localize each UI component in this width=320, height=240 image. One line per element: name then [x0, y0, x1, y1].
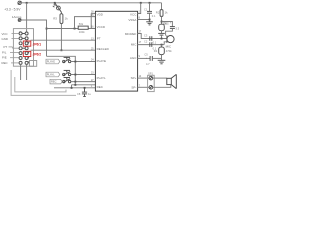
resistor R1 — [161, 45, 163, 47]
wire VCC stub up — [138, 3, 141, 14]
label PLAYE sw — [46, 59, 60, 64]
wire C1 drop — [149, 3, 151, 12]
microphone MIC — [167, 35, 174, 42]
switch SWc REC — [63, 78, 71, 83]
wire J1 drop A — [20, 64, 22, 80]
capacitor C1 — [147, 11, 152, 13]
svg-text:REC: REC — [51, 80, 57, 84]
wire SP+ — [138, 77, 150, 79]
capacitor C4 body — [159, 24, 165, 31]
svg-text:REC: REC — [97, 85, 104, 89]
wire +V drop to J1 — [26, 3, 28, 34]
node lower A — [74, 84, 76, 86]
svg-text:MIC: MIC — [131, 42, 137, 46]
svg-text:JP6/1: JP6/1 — [33, 42, 42, 46]
svg-text:PT: PT — [4, 45, 8, 49]
capacitor C6 — [150, 56, 152, 61]
wire +5 rail mid — [47, 28, 96, 30]
svg-text:VCC: VCC — [130, 12, 137, 16]
wire VSSA tie — [138, 19, 150, 21]
svg-text:C8: C8 — [77, 92, 81, 96]
node VSSA — [149, 19, 151, 21]
wire gnd to bias node — [161, 35, 163, 38]
wire SWc to IC — [71, 81, 96, 83]
svg-text:SP-: SP- — [131, 85, 136, 89]
red jumper box JP6/2 — [23, 51, 31, 56]
svg-text:4.7: 4.7 — [146, 62, 150, 66]
svg-text:SP+: SP+ — [131, 76, 137, 80]
svg-text:50k: 50k — [79, 22, 84, 26]
svg-text:C2: C2 — [144, 40, 148, 44]
node top rail LED tap — [54, 2, 56, 4]
node bias — [161, 21, 163, 23]
wire lower A to IC — [72, 84, 96, 86]
capacitor C5 — [170, 27, 175, 29]
LED D1 — [53, 3, 62, 12]
svg-text:VCC: VCC — [2, 32, 8, 36]
svg-text:PT: PT — [97, 37, 101, 41]
pin number ticks right — [139, 12, 142, 88]
svg-text:MICREF: MICREF — [125, 32, 137, 36]
wire R1 to gnd — [161, 55, 163, 61]
svg-text:VCCD: VCCD — [97, 25, 106, 29]
node C8 tap — [84, 87, 86, 89]
svg-text:VDD: VDD — [97, 12, 104, 16]
svg-text:1k: 1k — [65, 17, 69, 21]
wire P2 to +5 node — [21, 19, 27, 21]
svg-text:PLAYE: PLAYE — [97, 59, 106, 63]
svg-text:RECLED: RECLED — [97, 47, 110, 51]
resistor R6 — [78, 26, 88, 29]
svg-text:100k: 100k — [79, 30, 85, 34]
wire bias right branch — [162, 22, 173, 27]
node rail loop — [74, 28, 76, 30]
svg-text:R3: R3 — [53, 17, 57, 21]
jumper header SP — [148, 75, 155, 91]
node rail feed — [46, 28, 48, 30]
node RECLED junction — [61, 49, 63, 51]
wire label stubs J1 — [9, 34, 20, 63]
IC U1 box — [95, 11, 137, 91]
wire loop to XCLK — [75, 17, 96, 29]
wire MICREF — [138, 34, 167, 39]
svg-text:+3.3 - 5.9V: +3.3 - 5.9V — [4, 8, 21, 12]
svg-text:C3: C3 — [144, 34, 148, 38]
wire mic lower terminal — [164, 42, 166, 45]
svg-text:VSSA: VSSA — [128, 18, 136, 22]
red jumper box JP6/1 — [23, 41, 31, 46]
svg-text:0.1: 0.1 — [152, 14, 156, 18]
J1 pin rows — [19, 32, 29, 64]
resistor R2 — [160, 10, 163, 17]
ground C4 — [158, 33, 165, 35]
node R1 tap — [161, 44, 163, 46]
wire VDD stub — [91, 12, 95, 14]
svg-text:470k: 470k — [166, 49, 172, 53]
wire pad1 to speaker — [153, 77, 167, 79]
node top rail J1 drop — [26, 2, 28, 4]
wire R2 to node — [161, 16, 163, 24]
svg-text:PLAYL: PLAYL — [97, 76, 106, 80]
power port symbol P1 — [18, 1, 22, 4]
wire RECLED — [31, 49, 96, 51]
sheet border outer — [11, 70, 76, 95]
wire C1 to gnd — [149, 13, 151, 22]
node SWc — [74, 81, 76, 83]
switch SWb PLAYL — [63, 70, 71, 75]
svg-text:REC: REC — [2, 61, 8, 65]
ground AGC — [158, 60, 166, 64]
pad SP- — [149, 86, 153, 90]
svg-text:C1: C1 — [144, 8, 148, 12]
capacitor C8 — [82, 88, 87, 97]
svg-text:C5: C5 — [144, 52, 148, 56]
capacitor C3 — [150, 36, 152, 41]
node SWb — [74, 74, 76, 76]
wire R3 to RECLED — [60, 24, 62, 51]
wire rail to R2 — [161, 3, 163, 10]
label PLAYL sw — [46, 72, 60, 77]
power port symbol P2 — [18, 19, 21, 22]
svg-text:GND: GND — [2, 37, 8, 41]
wire C6 to gnd col — [152, 57, 161, 59]
svg-text:P/L: P/L — [2, 51, 7, 55]
node bias on mic wire — [161, 38, 163, 40]
svg-text:SP1: SP1 — [148, 72, 153, 76]
wire AGC — [138, 57, 151, 59]
svg-text:0.1: 0.1 — [153, 40, 157, 44]
wire switch feed — [47, 56, 76, 85]
svg-text:P/E: P/E — [2, 56, 7, 60]
wire PT — [31, 39, 96, 41]
wire pad2 to speaker — [153, 85, 171, 88]
wire C4 to gnd — [161, 31, 163, 34]
svg-text:PLAYL: PLAYL — [47, 73, 55, 77]
wire lower B long — [54, 87, 95, 89]
jumper pad box row7 — [30, 61, 37, 67]
capacitor C2 — [150, 42, 152, 47]
svg-text:R1: R1 — [154, 49, 158, 53]
svg-text:3.3: 3.3 — [175, 27, 179, 31]
node top rail VCC tap — [140, 2, 142, 4]
connector J1 — [13, 29, 33, 67]
speaker LS1 — [167, 74, 177, 88]
pin number ticks left — [91, 12, 94, 88]
node SWa — [74, 61, 76, 63]
wire +5 branch right — [27, 20, 47, 56]
svg-text:AGC: AGC — [130, 56, 137, 60]
resistor R3 — [60, 12, 63, 23]
pad SP+ — [149, 76, 153, 80]
svg-text:MIC: MIC — [166, 44, 172, 48]
wire SWa to IC — [71, 61, 96, 63]
wire top +V rail — [21, 2, 161, 4]
node lower B — [71, 87, 73, 89]
node top rail C1 tap — [149, 2, 151, 4]
wire J1 drop B — [26, 64, 28, 80]
wire C5 to mic — [166, 28, 173, 35]
sheet border inner — [15, 77, 66, 92]
svg-text:PLAYE: PLAYE — [47, 60, 55, 64]
wire VDD tie — [90, 13, 92, 28]
label REC sw — [50, 79, 62, 84]
wire SWb to IC — [71, 74, 96, 76]
wire MIC pin — [138, 44, 165, 46]
ground C1 — [146, 22, 153, 25]
svg-text:JP6/2: JP6/2 — [33, 53, 42, 57]
wire lower AB link — [71, 85, 73, 88]
wire SP- — [138, 86, 150, 88]
switch SWa PLAYE — [63, 57, 71, 62]
svg-text:R2: R2 — [156, 10, 160, 14]
label box C4 — [162, 21, 168, 25]
